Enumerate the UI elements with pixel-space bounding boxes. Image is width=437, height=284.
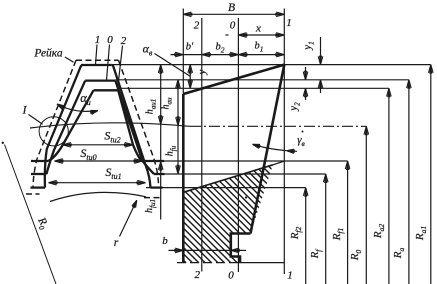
label b2 bbox=[216, 42, 225, 55]
label 0 profile bbox=[107, 34, 113, 46]
label 1 top bbox=[286, 17, 292, 29]
label Ra2 bbox=[372, 224, 386, 239]
rack profile 1 root right bbox=[151, 186, 163, 188]
svg-text:2: 2 bbox=[194, 20, 200, 32]
label h_fu1 bbox=[144, 199, 157, 213]
section line 1 bbox=[283, 9, 285, 275]
label R0 bbox=[349, 250, 363, 262]
dimension b-prime line bbox=[171, 52, 202, 57]
tip level line Ra bbox=[115, 79, 409, 81]
svg-text:0: 0 bbox=[107, 34, 113, 46]
label 0 bottom bbox=[228, 270, 234, 282]
bottom boundary solid part bbox=[236, 262, 285, 264]
dimension S_tu2 bbox=[63, 143, 133, 148]
label R0 bbox=[34, 215, 51, 232]
rack outline dashed right flank bbox=[119, 60, 159, 184]
rack profile 1 top bbox=[81, 64, 112, 66]
rack profile 2 root left bbox=[31, 160, 48, 162]
label 2 profile bbox=[121, 35, 127, 47]
rack outline dashed left flank bbox=[33, 60, 76, 187]
rack root arc r bbox=[50, 192, 146, 201]
label h_au bbox=[161, 97, 174, 110]
tip level line Ra2 bbox=[118, 87, 389, 89]
dot near step bbox=[245, 196, 247, 198]
svg-text:0: 0 bbox=[228, 270, 234, 282]
label b bbox=[162, 235, 168, 247]
label Rf2 bbox=[289, 226, 303, 240]
label h_fu bbox=[165, 145, 178, 156]
label r bbox=[114, 237, 119, 249]
leader alpha_v bbox=[155, 54, 191, 77]
label Ra bbox=[392, 248, 406, 260]
svg-text:1: 1 bbox=[287, 270, 293, 282]
rack profile 0 right flank bbox=[115, 81, 154, 174]
dimension S_tu0 bbox=[55, 159, 143, 164]
label alpha_v bbox=[143, 42, 153, 58]
label gamma_v bbox=[297, 134, 305, 148]
tip level line Ra1 bbox=[112, 64, 431, 66]
root level line Rf bbox=[154, 173, 326, 175]
label I bbox=[22, 105, 28, 117]
radius dimension line Ra1 bbox=[429, 65, 434, 284]
dimension h_fu bbox=[176, 125, 181, 173]
label x bbox=[255, 23, 261, 35]
angle arc alpha_u bbox=[57, 104, 98, 114]
svg-text:2: 2 bbox=[195, 269, 201, 281]
label 1 bottom bbox=[287, 270, 293, 282]
rack profile 2 top bbox=[94, 89, 119, 91]
dimension b line bbox=[169, 248, 247, 253]
rack pitch arc bbox=[30, 123, 190, 128]
dot left edge bbox=[2, 142, 4, 144]
gear section right edge bbox=[251, 65, 285, 234]
rack profile 2 root right bbox=[142, 160, 165, 162]
leader I bbox=[29, 115, 43, 125]
svg-text:Рейка: Рейка bbox=[33, 47, 63, 60]
gamma_v dot bbox=[302, 131, 304, 133]
label 2 top bbox=[194, 20, 200, 32]
left face extension line bbox=[182, 9, 184, 95]
dimension x line bbox=[238, 33, 284, 38]
rack profile 1 right flank bbox=[112, 65, 151, 188]
svg-text:x: x bbox=[255, 23, 261, 35]
label 0 top bbox=[230, 20, 236, 32]
pitch centerline dash-dot bbox=[190, 125, 366, 127]
root cone extension bbox=[273, 161, 285, 165]
radius dimension line Rf1 bbox=[345, 161, 350, 284]
rack profile 0 top bbox=[85, 79, 115, 81]
crown radius ray R0 bbox=[5, 145, 57, 284]
leader r bbox=[120, 200, 137, 236]
leader 1 bbox=[96, 45, 98, 65]
svg-text:1: 1 bbox=[95, 34, 101, 46]
gear section top edge bbox=[183, 65, 284, 94]
dimension B line bbox=[183, 12, 284, 17]
leader 2 bbox=[118, 46, 123, 90]
rack outline dashed root left bbox=[26, 193, 40, 195]
tick near x dimension bbox=[225, 34, 228, 36]
detail circle I bbox=[39, 117, 68, 146]
label B bbox=[228, 2, 235, 14]
label Rf bbox=[309, 249, 323, 260]
label S_tu2 bbox=[104, 129, 120, 145]
label 1 profile bbox=[95, 34, 101, 46]
dimension y line bbox=[188, 65, 193, 89]
radius dimension line R0 bbox=[364, 126, 369, 284]
svg-text:2: 2 bbox=[121, 35, 127, 47]
rack profile 0 root left bbox=[31, 173, 47, 175]
rack profile 2 right flank bbox=[118, 90, 141, 161]
label y bbox=[197, 69, 208, 75]
hatched gear rim section bbox=[0, 150, 437, 284]
label y1 bbox=[303, 41, 316, 50]
svg-text:b: b bbox=[162, 235, 168, 247]
rack outline dashed top bbox=[76, 59, 119, 61]
dimension h_fu1 bbox=[158, 124, 163, 219]
label h_au1 bbox=[145, 99, 158, 115]
label S_tu1 bbox=[105, 165, 121, 181]
svg-text:r: r bbox=[114, 237, 119, 249]
rack profile 1 root left bbox=[31, 186, 46, 188]
radius dimension line Rf bbox=[323, 174, 328, 284]
dimension b1 line bbox=[238, 52, 284, 57]
dimension h_au bbox=[176, 80, 181, 126]
gear section step bbox=[231, 234, 251, 263]
svg-text:B: B bbox=[228, 2, 235, 14]
rack profile 0 root right bbox=[154, 173, 165, 175]
rack profile 0 left flank bbox=[47, 81, 86, 174]
leader Рейка bbox=[65, 57, 74, 62]
label y2 bbox=[289, 102, 302, 112]
root level line Rf2 bbox=[146, 187, 306, 189]
svg-text:1: 1 bbox=[286, 17, 292, 29]
leader 0 bbox=[107, 45, 110, 81]
svg-text:0: 0 bbox=[230, 20, 236, 32]
section line 2 bbox=[201, 18, 203, 272]
label S_tu0 bbox=[80, 146, 96, 162]
rack outline dashed root right bbox=[144, 197, 160, 199]
label Rf1 bbox=[331, 228, 345, 242]
root level line Rf1 bbox=[153, 160, 348, 162]
bottom boundary dashed part bbox=[177, 262, 236, 264]
label b-prime bbox=[186, 42, 194, 53]
label Рейка bbox=[33, 47, 63, 60]
dimension b2 line bbox=[202, 52, 239, 57]
dimension S_tu1 bbox=[49, 180, 146, 185]
label alpha_u bbox=[80, 91, 91, 107]
rack profile 1 left flank bbox=[45, 66, 83, 188]
label b1 bbox=[255, 41, 264, 54]
gear section left edge bbox=[182, 94, 185, 263]
dimension h_au1 bbox=[158, 65, 163, 125]
dimension y1 arrows bbox=[318, 37, 323, 93]
radius dimension line Rf2 bbox=[303, 188, 308, 284]
svg-text:b′: b′ bbox=[186, 42, 194, 53]
radius dimension line Ra bbox=[407, 80, 412, 284]
dimension y2 arrows bbox=[303, 67, 308, 100]
radius dimension line Ra2 bbox=[387, 88, 392, 284]
section line 0 bbox=[237, 18, 239, 272]
svg-text:y: y bbox=[197, 69, 208, 75]
gear section root cone line bbox=[183, 165, 273, 193]
rack profile 2 left flank bbox=[48, 90, 94, 161]
angle arc gamma_v bbox=[253, 144, 298, 153]
label 2 bottom bbox=[195, 269, 201, 281]
label Ra1 bbox=[414, 226, 428, 241]
